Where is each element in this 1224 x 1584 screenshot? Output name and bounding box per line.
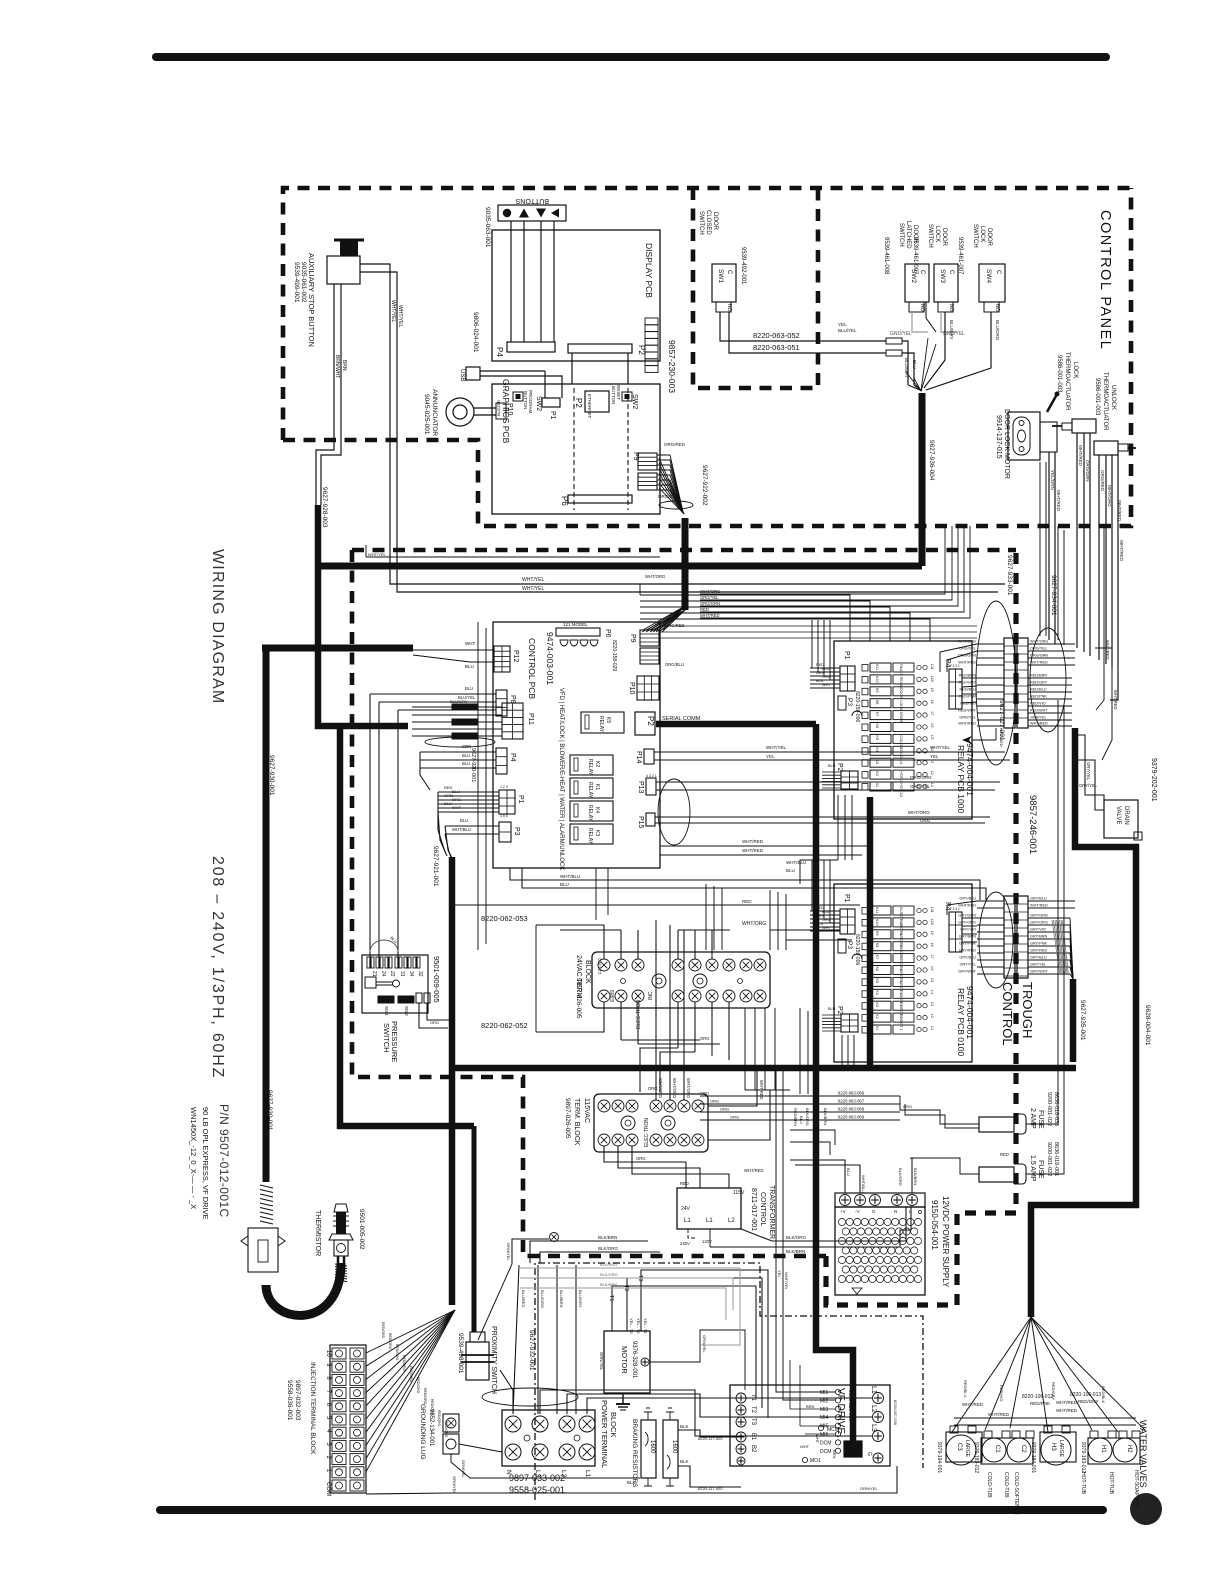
svg-text:P15: P15	[637, 816, 644, 829]
svg-text:LOCK: LOCK	[1072, 362, 1078, 378]
svg-text:WHT/RED: WHT/RED	[1030, 661, 1048, 665]
svg-text:RED/ORG: RED/ORG	[437, 1410, 441, 1427]
control PCB 9474-003-001	[493, 622, 660, 868]
svg-text:DRAIN: DRAIN	[899, 712, 903, 724]
svg-text:YEL: YEL	[838, 322, 847, 327]
svg-text:9376-328-001: 9376-328-001	[631, 1341, 637, 1379]
svg-text:K5: K5	[605, 717, 611, 723]
drain valve 9379-202-001	[1104, 800, 1138, 838]
wires 24vac to relay region risers	[729, 880, 731, 930]
wires right column systems	[989, 880, 991, 896]
svg-text:ANNUNCIATOR: ANNUNCIATOR	[431, 389, 438, 436]
door lock switch SW4	[979, 264, 1005, 302]
svg-text:THERMOACTUATOR: THERMOACTUATOR	[1102, 372, 1108, 431]
relay pcb u P3 connector	[838, 696, 846, 710]
svg-text:WHT/RED: WHT/RED	[988, 1412, 1010, 1417]
svg-text:WHT: WHT	[815, 1434, 820, 1444]
wires control PCB bottom	[510, 868, 700, 880]
wire harness main horizontal run	[318, 563, 922, 570]
svg-text:P1: P1	[517, 795, 524, 804]
svg-text:K2: K2	[594, 761, 600, 767]
svg-text:BLK: BLK	[680, 1424, 689, 1429]
svg-text:THERMISTOR: THERMISTOR	[314, 1210, 321, 1256]
relay K3	[570, 824, 613, 844]
svg-text:WHT/RED: WHT/RED	[958, 722, 976, 726]
svg-text:4 5 6: 4 5 6	[500, 814, 508, 818]
svg-text:115VAC: 115VAC	[583, 1098, 590, 1123]
svg-text:DRAIN: DRAIN	[1123, 806, 1129, 825]
svg-text:12VDC POWER SUPPLY: 12VDC POWER SUPPLY	[941, 1196, 950, 1288]
wires unlock thermoactuator	[1098, 455, 1100, 660]
svg-text:N: N	[894, 1209, 897, 1214]
relay pcb u P1 connector	[840, 666, 855, 691]
svg-text:CLOSED: CLOSED	[705, 210, 711, 235]
svg-text:1600: 1600	[671, 1440, 677, 1454]
svg-text:8636-018-001: 8636-018-001	[1053, 1142, 1059, 1176]
svg-text:RED/ORG: RED/ORG	[388, 1333, 392, 1350]
svg-text:GRY/VIO: GRY/VIO	[960, 928, 976, 932]
svg-text:L2: L2	[870, 1405, 877, 1413]
svg-text:L1: L1	[930, 783, 934, 787]
svg-text:BLU/ORG: BLU/ORG	[995, 320, 1000, 341]
relay K5	[581, 712, 624, 733]
svg-text:BLK/BRN: BLK/BRN	[598, 1235, 617, 1240]
svg-text:H2: H2	[1126, 1445, 1132, 1453]
svg-text:BUTTON: BUTTON	[611, 386, 616, 404]
svg-text:ORG: ORG	[700, 1036, 710, 1041]
svg-text:ORG/YEL: ORG/YEL	[1030, 647, 1047, 651]
svg-text:RED/VIO: RED/VIO	[999, 1385, 1004, 1401]
wire harness 9627-936-004 control panel drop	[919, 393, 926, 566]
svg-text:2 AMP: 2 AMP	[1029, 1108, 1036, 1129]
svg-text:9539-498-001: 9539-498-001	[457, 1333, 464, 1374]
wires left risers from harness to P8	[365, 545, 367, 557]
wires P12 from harness	[413, 649, 494, 651]
relay K1	[570, 778, 613, 798]
svg-text:P10: P10	[628, 682, 635, 695]
relay PCB 0100	[834, 884, 972, 1062]
svg-text:8220-159-006: 8220-159-006	[854, 934, 860, 965]
svg-text:WHT/RED: WHT/RED	[958, 904, 976, 908]
control P3 connector	[499, 822, 511, 842]
wire harness 9539-498-001 injection bundle drop	[449, 1068, 456, 1305]
svg-text:BLU/GRY: BLU/GRY	[450, 699, 468, 704]
svg-text:K6: K6	[875, 967, 879, 972]
svg-text:DOOR: DOOR	[941, 228, 947, 247]
motor terminals T1 T2 T3	[611, 1311, 613, 1331]
svg-text:BUZZER: BUZZER	[496, 400, 501, 416]
svg-text:L3: L3	[930, 759, 934, 763]
svg-text:K1: K1	[594, 784, 600, 790]
grounding lug 9852-134-001	[443, 1414, 459, 1432]
wires drain valve	[1075, 735, 1104, 805]
svg-text:ELEC-TRON: ELEC-TRON	[644, 1118, 650, 1147]
svg-text:GRN/YEL: GRN/YEL	[452, 1476, 457, 1494]
trough connector lower	[1004, 896, 1015, 978]
svg-text:YEL: YEL	[766, 754, 775, 759]
relay bank l	[870, 906, 891, 915]
svg-text:BLU: BLU	[786, 868, 795, 873]
svg-text:GRY/BLU: GRY/BLU	[959, 897, 976, 901]
wires power block risers	[513, 1265, 519, 1414]
svg-text:BLK/ORG: BLK/ORG	[805, 1108, 810, 1126]
svg-text:TERM. BLOCK: TERM. BLOCK	[573, 1098, 580, 1146]
svg-text:HOT-TUB: HOT-TUB	[1108, 1472, 1114, 1495]
svg-text:L3: L3	[870, 1424, 877, 1432]
control P11 connector	[502, 703, 523, 739]
door lock motor 9914-137-015	[1008, 412, 1040, 460]
graphics PCB	[492, 384, 660, 514]
svg-text:BLOCK: BLOCK	[609, 1412, 618, 1437]
wires relay pcb 1000 top entries	[640, 595, 850, 641]
svg-text:BRN: BRN	[806, 1404, 815, 1409]
svg-text:LOCK: LOCK	[934, 226, 940, 242]
svg-text:P4: P4	[509, 753, 516, 762]
svg-text:WHT/BLU: WHT/BLU	[452, 827, 471, 832]
svg-text:CONTROL: CONTROL	[1000, 982, 1015, 1046]
door lock switch SW3	[934, 264, 958, 302]
svg-text:BLK/ORG: BLK/ORG	[898, 1168, 903, 1186]
svg-text:DOOR: DOOR	[712, 212, 718, 231]
svg-text:L2: L2	[728, 1218, 735, 1224]
svg-text:RED/BRN: RED/BRN	[959, 674, 976, 678]
svg-text:ORG: ORG	[903, 1104, 912, 1109]
svg-text:RED/BLU: RED/BLU	[1030, 688, 1047, 692]
relay pcb l P4 connector	[949, 912, 962, 952]
svg-text:P9: P9	[629, 634, 636, 643]
svg-text:COLD-TUB: COLD-TUB	[986, 1472, 992, 1498]
svg-text:9200-001-022: 9200-001-022	[1046, 1142, 1052, 1176]
svg-text:9379-183-012: 9379-183-012	[973, 1442, 979, 1473]
program button SW2	[513, 392, 523, 401]
injection terminal block 9897-032-003	[330, 1345, 366, 1493]
svg-text:WHT/ORG: WHT/ORG	[700, 589, 720, 594]
svg-text:K4: K4	[594, 807, 600, 813]
svg-text:P/N 9507-012-001C: P/N 9507-012-001C	[217, 1104, 231, 1218]
svg-text:8220-063-052: 8220-063-052	[753, 331, 800, 340]
svg-text:120V: 120V	[702, 1239, 712, 1244]
svg-text:9627-921-001: 9627-921-001	[432, 846, 439, 887]
wire 8220-063-052	[720, 312, 886, 341]
svg-text:RED/BRN: RED/BRN	[793, 1108, 798, 1126]
svg-text:ORG/RED: ORG/RED	[1100, 470, 1105, 492]
graphics P1 connector	[542, 398, 560, 407]
svg-text:RED/PNK: RED/PNK	[959, 695, 976, 699]
svg-text:L1: L1	[584, 1470, 591, 1478]
svg-text:BLU: BLU	[799, 1116, 804, 1124]
wires BLK group to VF area	[530, 1241, 648, 1263]
svg-text:9539-461-007: 9539-461-007	[912, 237, 918, 275]
svg-text:8220-063-069: 8220-063-069	[838, 1115, 865, 1120]
control P14 connector	[644, 749, 654, 764]
svg-text:WHT/RED: WHT/RED	[1113, 690, 1118, 710]
svg-text:GRN/YEL: GRN/YEL	[1030, 716, 1047, 720]
svg-text:8220-057-036: 8220-057-036	[893, 1400, 898, 1426]
svg-text:9628-004-001: 9628-004-001	[1144, 1005, 1151, 1046]
svg-text:MI3: MI3	[820, 1407, 829, 1413]
svg-text:K9: K9	[875, 688, 879, 693]
svg-text:ORG: ORG	[700, 1091, 709, 1096]
water valve H1 H2	[1088, 1438, 1140, 1464]
svg-text:P8: P8	[509, 695, 516, 704]
svg-text:SW1: SW1	[717, 269, 724, 283]
svg-text:BLK: BLK	[680, 1459, 689, 1464]
svg-text:9501-009-005: 9501-009-005	[432, 956, 441, 1003]
svg-text:ORG: ORG	[710, 1099, 719, 1104]
svg-text:WHT: WHT	[452, 805, 462, 810]
auxiliary stop button	[340, 240, 358, 256]
taper door switch harness extra	[906, 372, 921, 391]
svg-text:B2: B2	[750, 1445, 756, 1453]
svg-text:GRY/VIO: GRY/VIO	[1030, 928, 1046, 932]
svg-text:34: 34	[408, 971, 414, 977]
svg-text:8220-063-068: 8220-063-068	[838, 1107, 865, 1112]
svg-text:B1: B1	[750, 1433, 756, 1441]
svg-text:COLD-TUB: COLD-TUB	[1003, 1472, 1009, 1498]
svg-text:9857-230-003: 9857-230-003	[667, 340, 677, 393]
svg-text:WHT/RED: WHT/RED	[1030, 904, 1048, 908]
svg-text:RED/GRY: RED/GRY	[1078, 1399, 1098, 1404]
svg-text:BLU: BLU	[828, 764, 836, 768]
svg-text:TRANSFORMER: TRANSFORMER	[768, 1185, 775, 1239]
display PCB 9857-230-003	[492, 230, 660, 361]
wires trough connector lower top pair	[977, 900, 1004, 902]
svg-text:BLK/BRN: BLK/BRN	[600, 1282, 617, 1287]
wires 24VAC to relay 0100 risers	[744, 1008, 746, 1090]
wires P3	[445, 825, 499, 827]
svg-text:P2: P2	[836, 763, 843, 772]
svg-text:9627-921-001: 9627-921-001	[866, 833, 872, 867]
wires fuse feeds	[700, 1095, 900, 1097]
svg-text:GRN/YEL: GRN/YEL	[599, 1352, 604, 1371]
svg-text:WHT/ORG: WHT/ORG	[645, 574, 665, 579]
wires P8	[370, 693, 496, 695]
taper fan graphics P9 extra	[659, 458, 684, 514]
svg-text:31: 31	[399, 971, 405, 977]
svg-text:9627-933-001: 9627-933-001	[1006, 555, 1013, 596]
wires thermoactuator drops through gap	[1039, 462, 1041, 636]
svg-text:SW2: SW2	[631, 394, 638, 409]
svg-text:9379-184-001: 9379-184-001	[1030, 1442, 1036, 1473]
VF drive power terminals	[736, 1393, 746, 1403]
svg-text:BLU/YEL: BLU/YEL	[838, 328, 857, 333]
svg-text:K4: K4	[875, 747, 879, 752]
svg-text:L1: L1	[930, 1026, 934, 1030]
svg-text:DOOR: DOOR	[986, 228, 992, 247]
svg-text:BLK/BRN: BLK/BRN	[786, 1249, 805, 1254]
svg-text:WHT/YEL: WHT/YEL	[522, 586, 544, 592]
svg-text:FUSE: FUSE	[1037, 1160, 1044, 1179]
wire harness thick stub P12	[262, 645, 413, 652]
svg-text:9897-032-003: 9897-032-003	[294, 1380, 301, 1421]
motor 9376-328-001	[604, 1331, 650, 1393]
control P8 connector	[496, 690, 507, 716]
svg-text:WHT/ORG: WHT/ORG	[742, 921, 766, 927]
svg-text:9539-492-001: 9539-492-001	[740, 247, 746, 285]
svg-text:T3: T3	[750, 1418, 756, 1426]
relay pcb l P2 connector	[841, 1014, 858, 1032]
wire 8220-063-051	[729, 312, 886, 353]
svg-text:GRN/YEL: GRN/YEL	[506, 1243, 511, 1261]
wire bundle relay P1 entries upper	[811, 620, 813, 668]
svg-text:BLU/RED: BLU/RED	[521, 1290, 526, 1307]
wires lower relay P1	[811, 860, 813, 911]
svg-text:T2: T2	[750, 1406, 756, 1414]
wire harness aux stop drop 9627-928-003	[318, 505, 408, 726]
wire bundle 9627-933-001 extra rows	[660, 625, 977, 627]
svg-text:P6: P6	[604, 629, 611, 638]
svg-text:L4: L4	[930, 747, 934, 751]
control panel assembly dashed boundary 9857-230-003	[283, 188, 1131, 440]
wires P13	[656, 781, 1000, 783]
wire red middle	[455, 904, 860, 906]
svg-text:K10: K10	[875, 919, 879, 926]
svg-text:WHT/ORG: WHT/ORG	[908, 810, 930, 815]
svg-text:K2: K2	[875, 771, 879, 776]
svg-text:8220-159-006: 8220-159-006	[854, 691, 860, 722]
wire injection COM to ground run	[366, 1493, 449, 1494]
svg-text:K8: K8	[875, 700, 879, 705]
svg-text:VFD | HEAT/LOCK | BLOWER/E-HEA: VFD | HEAT/LOCK | BLOWER/E-HEAT | WATER …	[558, 688, 564, 870]
svg-text:GRY/ORG: GRY/ORG	[1030, 921, 1048, 925]
svg-text:DISPLAY PCB: DISPLAY PCB	[644, 243, 654, 298]
wires top of main box horizontals	[366, 556, 660, 558]
VF drive line terminals	[873, 1393, 884, 1404]
wires center risers between control pcb and 24vac	[705, 884, 707, 950]
svg-text:GRN/YEL: GRN/YEL	[702, 1335, 707, 1353]
pressure switch contacts SW1 SW2	[378, 996, 394, 1003]
wires relay1000 P2 column down	[837, 795, 839, 860]
svg-text:K11: K11	[875, 907, 879, 913]
svg-text:COM: COM	[325, 1482, 331, 1496]
svg-text:BUTTONS: BUTTONS	[515, 197, 549, 204]
svg-text:WHT/ORG: WHT/ORG	[1107, 485, 1112, 507]
svg-text:YEL: YEL	[777, 1270, 782, 1278]
svg-text:RED: RED	[1000, 1152, 1009, 1157]
svg-text:L9: L9	[930, 688, 934, 692]
gray wires to motor area	[700, 1268, 740, 1345]
control P4 connector	[496, 748, 507, 774]
long wht/org run	[535, 925, 537, 1032]
svg-text:8220-063-066: 8220-063-066	[838, 1091, 865, 1096]
svg-text:H1: H1	[1100, 1445, 1106, 1453]
control P2 connector serial	[635, 712, 655, 735]
svg-text:WHT: WHT	[465, 641, 475, 646]
svg-text:SWITCH: SWITCH	[927, 224, 933, 248]
wire harness left drop to thermistor	[263, 648, 270, 1182]
svg-text:ORG/BLU: ORG/BLU	[665, 662, 684, 667]
svg-text:WHT/RED: WHT/RED	[742, 839, 764, 844]
svg-text:L11: L11	[930, 664, 934, 670]
svg-text:LATCHED: LATCHED	[905, 221, 911, 249]
control P1 connector	[499, 790, 515, 814]
graphics header strip	[645, 318, 658, 325]
svg-text:8220-117-002: 8220-117-002	[698, 1436, 723, 1441]
svg-text:-V: -V	[855, 1209, 860, 1214]
svg-text:P11: P11	[527, 713, 534, 725]
svg-text:BLK/ORG: BLK/ORG	[786, 1235, 807, 1240]
svg-text:9627-934-001: 9627-934-001	[1050, 575, 1057, 616]
svg-text:8220-158-029: 8220-158-029	[611, 640, 617, 671]
svg-text:SW1: SW1	[384, 1006, 389, 1016]
svg-text:L11: L11	[930, 907, 934, 913]
svg-text:L4: L4	[930, 990, 934, 994]
svg-text:WHT/RED: WHT/RED	[742, 848, 764, 853]
svg-text:FAULT RELAY: FAULT RELAY	[899, 664, 903, 689]
svg-text:1 2 3: 1 2 3	[500, 785, 508, 789]
svg-text:9627-920-001: 9627-920-001	[470, 748, 476, 782]
svg-text:9045-025-001: 9045-025-001	[423, 394, 430, 435]
svg-text:P3: P3	[846, 941, 853, 949]
svg-text:C2: C2	[1020, 1445, 1026, 1453]
gray wires lower left	[520, 1267, 740, 1269]
svg-text:GRY/WHT: GRY/WHT	[1030, 970, 1049, 974]
wires VF mi	[776, 1068, 835, 1392]
display P2 connector	[568, 344, 632, 353]
ground run along bottom	[449, 1466, 897, 1493]
svg-text:24: 24	[380, 971, 386, 977]
svg-text:9035-063-001: 9035-063-001	[484, 207, 491, 248]
svg-text:21: 21	[371, 971, 377, 977]
svg-text:BLK/BRN: BLK/BRN	[823, 1108, 828, 1125]
buttons strip 9035-063-001	[498, 205, 566, 221]
wires 115vac to relay 0100 column	[799, 1008, 801, 1094]
water valve C1 C2	[981, 1438, 1033, 1464]
12VDC power supply 9150-054-001	[835, 1193, 925, 1207]
svg-text:GND/YEL: GND/YEL	[890, 331, 912, 337]
svg-text:BLU: BLU	[452, 789, 460, 794]
cable marker 9627-920-001	[425, 737, 495, 747]
svg-text:L6: L6	[930, 967, 934, 971]
svg-text:9474-004-001: 9474-004-001	[965, 986, 975, 1039]
svg-text:P6: P6	[560, 496, 569, 506]
svg-text:P4: P4	[495, 347, 504, 357]
svg-text:SWITCH: SWITCH	[898, 223, 904, 247]
svg-text:ORG: ORG	[720, 1107, 729, 1112]
reset button SW2	[622, 392, 632, 401]
svg-text:GRY/WHT: GRY/WHT	[958, 970, 977, 974]
svg-text:9150-054-001: 9150-054-001	[930, 1200, 939, 1250]
svg-text:G: G	[872, 1209, 876, 1214]
svg-text:GRY/BRN: GRY/BRN	[959, 935, 976, 939]
svg-text:P10: P10	[506, 403, 513, 416]
wire harness bottom long horizontal	[452, 1065, 1076, 1072]
fuse 2 amp	[979, 1117, 1014, 1132]
svg-text:K2: K2	[875, 1014, 879, 1019]
proximity switch 9539-498-001	[470, 1332, 485, 1342]
svg-text:HOT 2: HOT 2	[899, 771, 903, 782]
ribbon cable buttons to display P4	[510, 221, 512, 342]
wire harness drain valve feed	[1031, 728, 1136, 1317]
motor ground	[622, 1393, 624, 1404]
wires into trough connector upper left	[977, 643, 1004, 645]
wires gap drops into main box	[700, 526, 945, 594]
svg-text:L2: L2	[930, 1014, 934, 1018]
svg-text:RELAY: RELAY	[598, 716, 604, 733]
svg-text:VALVE: VALVE	[1115, 806, 1121, 824]
svg-text:P1: P1	[843, 894, 850, 903]
svg-text:MI1: MI1	[820, 1390, 829, 1396]
svg-text:P2: P2	[836, 1006, 843, 1015]
svg-text:CONTROL: CONTROL	[759, 1192, 766, 1226]
svg-text:L10: L10	[930, 676, 934, 682]
wire wht/red right edge	[1110, 455, 1118, 700]
VF drive enclosure thin dashed boundary	[535, 1263, 923, 1500]
svg-text:ORG/RED: ORG/RED	[665, 623, 685, 628]
control P15 connector	[646, 813, 655, 826]
svg-text:WHT/YEL: WHT/YEL	[784, 1272, 789, 1291]
svg-text:L8: L8	[930, 700, 934, 704]
